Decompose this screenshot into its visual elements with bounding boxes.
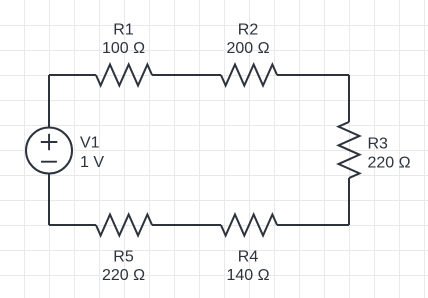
resistor R5 xyxy=(96,215,152,236)
voltage source V1 plus sign xyxy=(41,134,58,150)
svg-text:140 Ω: 140 Ω xyxy=(226,267,269,284)
svg-text:220 Ω: 220 Ω xyxy=(102,267,145,284)
voltage source V1 minus sign xyxy=(41,161,57,163)
svg-text:R5: R5 xyxy=(113,249,134,266)
wire bottom rail left segment xyxy=(49,224,96,226)
svg-text:R1: R1 xyxy=(113,21,134,38)
wire top-left vertical (source to top rail) xyxy=(48,75,50,128)
svg-text:200 Ω: 200 Ω xyxy=(226,40,269,57)
svg-text:R2: R2 xyxy=(238,21,259,38)
wire bottom-left vertical (bottom rail to source) xyxy=(48,174,50,226)
wire right vertical upper segment xyxy=(348,75,350,122)
svg-text:R3: R3 xyxy=(368,135,389,152)
wire top rail left segment xyxy=(49,74,96,76)
resistor R2 xyxy=(221,65,277,86)
svg-text:100 Ω: 100 Ω xyxy=(102,40,145,57)
svg-text:V1: V1 xyxy=(80,134,100,151)
resistor R1 xyxy=(96,65,152,86)
wire bottom rail right segment xyxy=(277,224,349,226)
voltage source V1 circle xyxy=(26,128,72,174)
wire top rail middle segment xyxy=(152,74,221,76)
wire top rail right segment xyxy=(277,74,349,76)
resistor R4 xyxy=(221,215,277,236)
svg-text:R4: R4 xyxy=(238,249,259,266)
svg-text:1 V: 1 V xyxy=(80,154,104,171)
wire right vertical lower segment xyxy=(348,178,350,225)
resistor R3 xyxy=(339,122,360,178)
svg-text:220 Ω: 220 Ω xyxy=(368,155,411,172)
wire bottom rail middle segment xyxy=(152,224,221,226)
